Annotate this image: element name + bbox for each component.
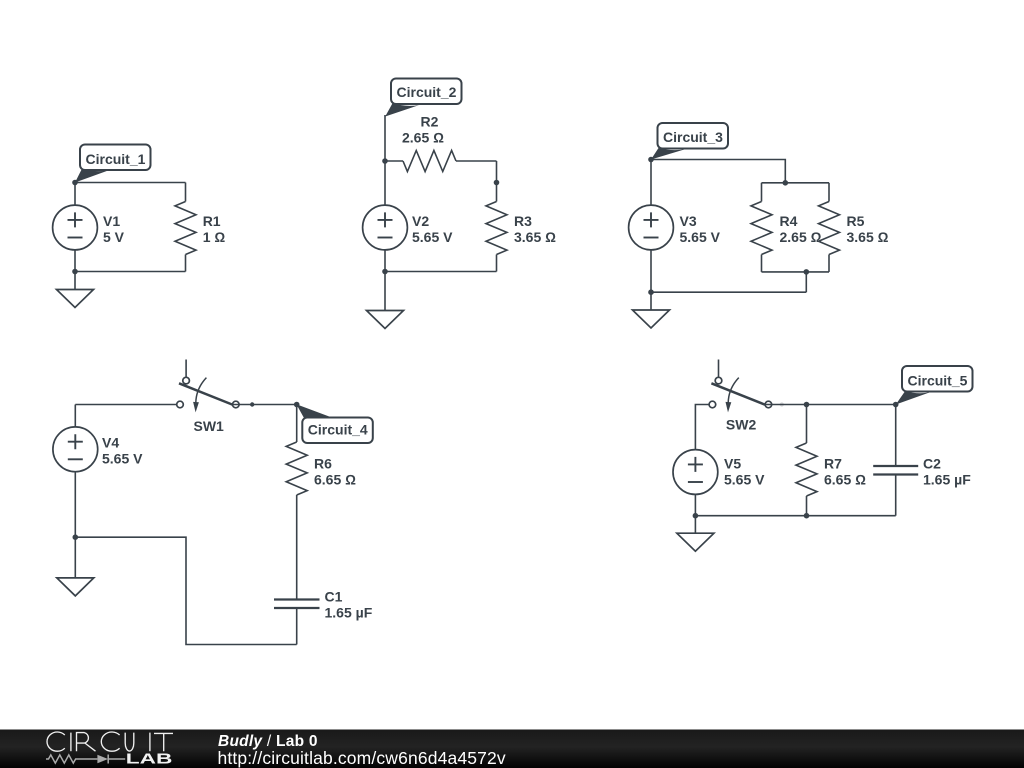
- svg-text:V5: V5: [724, 456, 741, 472]
- label flag Circuit_3: [651, 123, 728, 160]
- terminal dot SW2 right (faint): [780, 402, 784, 406]
- switch SW2: [709, 360, 772, 413]
- svg-text:3.65 Ω: 3.65 Ω: [847, 229, 889, 245]
- ground (circuit 5): [677, 516, 714, 552]
- svg-text:1 Ω: 1 Ω: [203, 229, 226, 245]
- svg-text:6.65 Ω: 6.65 Ω: [824, 472, 866, 488]
- voltage source V1: [53, 183, 98, 272]
- junction dot (V4 bottom): [73, 534, 79, 540]
- ground (circuit 3): [633, 292, 670, 328]
- svg-text:LAB: LAB: [126, 752, 173, 768]
- svg-text:SW2: SW2: [726, 417, 757, 433]
- wire SW2 right to label node: [765, 404, 896, 406]
- wire bottom (R3 to V2): [385, 271, 497, 273]
- wire bottom path (V4 to C1): [75, 537, 296, 644]
- wire lower lead of R3: [496, 255, 498, 272]
- wire top (V1 to R1): [75, 182, 186, 184]
- svg-text:V1: V1: [103, 213, 120, 229]
- label flag Circuit_4: [296, 404, 372, 443]
- svg-text:R7: R7: [824, 456, 842, 472]
- svg-text:V4: V4: [102, 435, 119, 451]
- voltage source V5: [673, 450, 718, 516]
- resistor R5: [819, 183, 840, 272]
- wire from flag down to node: [384, 115, 386, 205]
- wire bottom bar of parallel pair: [762, 271, 830, 273]
- wire right side down: [496, 161, 498, 202]
- label flag Circuit_1: [75, 145, 151, 183]
- wire lower lead of R7: [806, 496, 808, 516]
- svg-text:R5: R5: [847, 213, 865, 229]
- wire SW1 to node: [232, 404, 297, 406]
- svg-text:5.65 V: 5.65 V: [102, 451, 143, 467]
- switch SW1: [177, 360, 239, 413]
- svg-text:5.65 V: 5.65 V: [412, 229, 453, 245]
- svg-text:Circuit_2: Circuit_2: [397, 84, 457, 100]
- wire top bar of parallel pair: [762, 182, 830, 184]
- svg-text:5.65 V: 5.65 V: [680, 229, 721, 245]
- svg-text:2.65 Ω: 2.65 Ω: [402, 130, 444, 146]
- wire upper lead of R6: [296, 405, 298, 443]
- svg-text:C1: C1: [325, 589, 343, 605]
- wire R6 to C1: [296, 495, 298, 600]
- svg-text:C2: C2: [923, 456, 941, 472]
- wire C2 top lead: [895, 405, 897, 467]
- junction dot (R7 bottom): [804, 513, 810, 519]
- wire upper lead of R7: [806, 405, 808, 444]
- svg-text:SW1: SW1: [194, 418, 225, 434]
- voltage source V2: [363, 205, 408, 271]
- svg-text:Circuit_4: Circuit_4: [308, 421, 368, 437]
- wire lower lead of R1: [185, 255, 187, 272]
- resistor R4: [751, 183, 772, 272]
- svg-text:R2: R2: [421, 114, 439, 130]
- svg-text:5 V: 5 V: [103, 229, 125, 245]
- node dot (label node): [893, 402, 899, 408]
- wire bottom (to V3): [651, 291, 806, 293]
- svg-text:R1: R1: [203, 213, 221, 229]
- junction dot (V5 bottom): [693, 513, 699, 519]
- voltage source V3: [629, 160, 674, 293]
- junction dot (V2 bottom): [382, 269, 388, 275]
- ground (circuit 4): [57, 537, 94, 596]
- node dot (V3 top): [648, 157, 654, 163]
- svg-text:V2: V2: [412, 213, 429, 229]
- svg-text:Circuit_5: Circuit_5: [908, 373, 968, 389]
- node dot (R6 top): [294, 402, 300, 408]
- svg-text:3.65 Ω: 3.65 Ω: [514, 229, 556, 245]
- logo wordmark CIRCUIT: [47, 732, 173, 751]
- logo resistor-diode glyph: [46, 755, 125, 764]
- svg-text:1.65 µF: 1.65 µF: [923, 472, 971, 488]
- ground (circuit 2): [367, 272, 404, 329]
- resistor R1: [175, 202, 196, 255]
- junction dot (V3 bottom): [648, 289, 654, 295]
- junction dot (top bar): [783, 180, 789, 186]
- node dot (R2 left / V2 top): [382, 158, 388, 164]
- svg-text:http://circuitlab.com/cw6n6d4a: http://circuitlab.com/cw6n6d4a4572v: [218, 748, 506, 768]
- capacitor C1: [274, 600, 320, 645]
- svg-text:Circuit_1: Circuit_1: [86, 151, 146, 167]
- wire bottom (R1 to V1): [75, 271, 186, 273]
- resistor R3: [486, 202, 507, 255]
- label flag Circuit_5: [896, 366, 973, 405]
- junction dot (V1 bottom): [72, 269, 78, 275]
- svg-text:Circuit_3: Circuit_3: [663, 129, 723, 145]
- voltage source V4: [53, 405, 98, 538]
- wire stub down from bottom bar: [805, 272, 807, 292]
- resistor R7: [796, 443, 817, 496]
- wire right upper lead of R1: [185, 183, 187, 202]
- capacitor C2: [873, 466, 918, 516]
- node A dot (top of V1): [72, 180, 78, 186]
- svg-text:1.65 µF: 1.65 µF: [325, 605, 373, 621]
- wire top (V3 to parallel pair): [651, 160, 785, 183]
- wire bottom (V5 to C2): [695, 515, 895, 517]
- resistor R2: [385, 151, 497, 172]
- svg-text:5.65 V: 5.65 V: [724, 472, 765, 488]
- svg-text:V3: V3: [680, 213, 697, 229]
- svg-text:R4: R4: [780, 213, 798, 229]
- wire SW2 left elbow to V5: [695, 405, 709, 451]
- wire top (V4 to SW1): [75, 404, 176, 406]
- resistor R6: [286, 442, 307, 495]
- label flag Circuit_2: [385, 79, 461, 117]
- junction dot (R7 top): [804, 402, 810, 408]
- terminal dot SW1 right: [250, 402, 254, 406]
- svg-text:R3: R3: [514, 213, 532, 229]
- junction dot (R3 top): [494, 180, 500, 186]
- ground (circuit 1): [57, 272, 94, 308]
- svg-text:2.65 Ω: 2.65 Ω: [780, 229, 822, 245]
- svg-text:R6: R6: [314, 456, 332, 472]
- svg-text:6.65 Ω: 6.65 Ω: [314, 472, 356, 488]
- junction dot (bottom bar): [804, 269, 810, 275]
